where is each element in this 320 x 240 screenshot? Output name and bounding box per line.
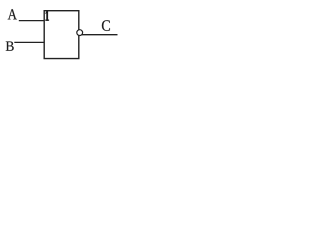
node A label xyxy=(8,9,17,19)
wire B xyxy=(14,41,44,43)
inversion bubble xyxy=(77,30,83,36)
wire C xyxy=(82,34,118,36)
node C label xyxy=(102,20,110,31)
gate function label 1 xyxy=(45,11,49,21)
wire A xyxy=(19,20,45,22)
node B label xyxy=(6,41,14,50)
gate body U1 (IEC box) xyxy=(44,11,79,59)
